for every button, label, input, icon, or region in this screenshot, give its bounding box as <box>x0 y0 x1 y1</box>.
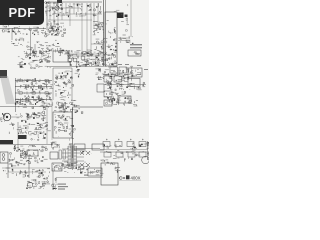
IC U16 <box>18 135 27 139</box>
label text <box>88 50 92 53</box>
wire <box>40 57 41 59</box>
wire <box>109 56 111 58</box>
wire <box>101 44 103 46</box>
wire <box>75 72 78 74</box>
wire <box>46 2 50 4</box>
wire <box>36 114 38 116</box>
wire <box>55 93 57 97</box>
capacitor C10 <box>49 50 51 52</box>
label text <box>54 6 57 9</box>
wire <box>54 129 56 131</box>
wire <box>119 76 123 78</box>
wire <box>110 32 112 34</box>
capacitor C62 <box>39 133 42 134</box>
wire <box>105 23 107 24</box>
transistor Q31 <box>81 56 85 60</box>
wire <box>45 119 47 121</box>
diode D30 <box>64 82 65 84</box>
svg-text:400X: 400X <box>131 175 141 180</box>
wire <box>32 61 34 62</box>
label text <box>52 47 54 50</box>
wire <box>81 54 85 56</box>
diode D52 <box>44 137 45 138</box>
wire <box>54 168 56 171</box>
diode D11 <box>101 46 102 48</box>
wire <box>106 82 108 85</box>
wire <box>38 181 40 183</box>
wire <box>22 119 26 121</box>
diode D3 <box>57 28 58 30</box>
wire <box>70 108 74 110</box>
wire <box>23 125 27 127</box>
node <box>72 169 73 170</box>
wire <box>8 132 10 134</box>
capacitor C47 <box>136 74 138 77</box>
node <box>37 42 38 43</box>
wire <box>39 126 42 128</box>
capacitor C43 <box>118 73 120 74</box>
wire <box>116 102 120 104</box>
wire <box>97 68 99 71</box>
label text <box>45 104 47 107</box>
wire <box>120 88 122 89</box>
wire <box>28 85 30 87</box>
wire <box>71 76 73 78</box>
transistor Q10 <box>99 12 101 14</box>
wire <box>107 85 110 87</box>
wire <box>131 75 132 77</box>
wire <box>37 170 41 172</box>
capacitor C84 <box>24 164 25 165</box>
wire <box>22 44 24 47</box>
wire <box>67 164 69 166</box>
wire <box>101 48 103 50</box>
wire <box>43 49 46 51</box>
capacitor C56 <box>33 117 35 119</box>
wire <box>59 49 62 51</box>
resistor R12 <box>121 14 123 15</box>
wire <box>108 32 110 34</box>
IC U4 <box>117 13 124 19</box>
diode D17 <box>126 30 128 31</box>
wire <box>78 63 80 65</box>
wire <box>72 99 75 101</box>
label text <box>38 33 40 36</box>
label text <box>69 94 72 97</box>
transistor Q1 <box>55 6 59 10</box>
wire <box>97 3 99 30</box>
wire <box>51 29 54 31</box>
wire <box>56 120 60 122</box>
wire <box>85 13 87 16</box>
wire <box>71 75 73 77</box>
wire <box>19 153 21 157</box>
resistor R30 <box>19 92 22 94</box>
resistor R22 <box>36 65 37 67</box>
wire <box>54 23 59 25</box>
node <box>102 26 103 27</box>
wire <box>72 137 74 139</box>
wire <box>112 63 114 66</box>
diode D66 <box>134 147 136 148</box>
capacitor C22 <box>110 48 112 51</box>
diode D7 <box>59 25 60 28</box>
wire <box>102 61 104 63</box>
wire <box>44 58 46 61</box>
wire <box>58 105 60 108</box>
node <box>69 55 72 58</box>
capacitor C81 <box>142 139 144 141</box>
transistor Q79 <box>28 181 30 183</box>
wire <box>58 54 60 57</box>
wire <box>131 100 133 103</box>
wire <box>100 76 102 78</box>
wire <box>129 103 133 105</box>
wire <box>132 153 134 155</box>
wire <box>23 84 28 86</box>
wire <box>28 100 30 103</box>
label text <box>113 157 117 160</box>
wire <box>39 99 43 101</box>
wire <box>20 133 22 134</box>
node <box>44 178 45 179</box>
inductor L82 <box>27 159 29 162</box>
wire <box>15 99 52 101</box>
label text <box>53 25 56 28</box>
wire <box>48 20 50 22</box>
label text <box>20 159 23 162</box>
inductor L89 <box>70 146 72 169</box>
node <box>37 55 40 58</box>
wire <box>52 188 54 190</box>
label text <box>128 101 132 104</box>
transistor Q57 <box>27 114 29 116</box>
inductor L124 <box>74 166 77 168</box>
wire <box>63 91 65 93</box>
inductor L118 <box>74 157 77 159</box>
wire <box>61 99 65 101</box>
wire <box>77 68 80 70</box>
diode D6 <box>51 34 52 36</box>
wire <box>101 26 103 29</box>
inductor L60 <box>110 98 111 99</box>
wire <box>143 86 146 88</box>
wire <box>108 75 110 77</box>
wire <box>93 171 95 173</box>
diode D70 <box>16 161 17 163</box>
wire <box>24 58 26 60</box>
wire <box>28 123 30 125</box>
wire <box>14 27 18 29</box>
inductor L36 <box>41 60 43 63</box>
wire <box>46 85 48 88</box>
label text <box>74 99 77 102</box>
wire <box>17 30 19 33</box>
wire <box>147 141 149 160</box>
wire <box>51 7 53 10</box>
wire <box>47 66 104 68</box>
capacitor C89 <box>39 173 41 174</box>
wire <box>27 126 29 129</box>
resistor R3 <box>58 2 59 3</box>
wire <box>102 47 104 49</box>
inductor L17 <box>46 51 47 53</box>
label text <box>107 161 109 164</box>
diode D41 <box>113 98 115 100</box>
wire <box>94 49 97 51</box>
resistor R15 <box>96 57 98 58</box>
capacitor C92 <box>44 182 45 185</box>
transistor Q75 <box>35 160 37 162</box>
wire <box>138 144 140 146</box>
wire <box>130 85 133 87</box>
IC U5 <box>125 15 128 18</box>
wire <box>126 151 128 153</box>
diode D13 <box>37 26 39 29</box>
resistor R64 <box>140 145 142 147</box>
label text <box>59 110 63 113</box>
node <box>1 121 2 122</box>
diode D36 <box>110 87 112 88</box>
wire <box>75 12 77 15</box>
resistor R7 <box>60 48 61 49</box>
diode D80 <box>62 164 64 166</box>
resistor R44 <box>110 83 111 85</box>
resistor R43 <box>122 78 124 80</box>
node <box>23 158 24 159</box>
transistor Q74 <box>24 156 26 158</box>
label text <box>57 26 59 29</box>
wire <box>26 130 28 131</box>
wire <box>116 169 118 172</box>
wire <box>98 27 100 29</box>
inductor L64 <box>44 108 46 110</box>
wire <box>61 168 63 170</box>
IC U2 <box>53 51 68 62</box>
wire <box>114 30 117 32</box>
node <box>104 54 105 55</box>
wire <box>54 188 57 190</box>
node <box>62 115 65 118</box>
label text <box>43 146 45 149</box>
wire <box>78 13 81 15</box>
wire <box>53 2 55 4</box>
label text <box>22 132 24 135</box>
wire <box>98 76 103 78</box>
wire <box>131 43 133 44</box>
node <box>103 90 106 93</box>
wire <box>136 87 138 90</box>
wire <box>85 64 89 66</box>
wire <box>66 165 70 167</box>
label text <box>77 53 79 56</box>
inductor L122 <box>74 163 77 165</box>
label text <box>49 87 53 90</box>
label text <box>46 34 49 37</box>
wire <box>64 122 68 124</box>
wire <box>111 78 113 81</box>
inductor L123 <box>74 164 77 166</box>
wire <box>59 93 61 95</box>
transistor Q39 <box>36 83 37 84</box>
wire <box>70 118 73 120</box>
diode D83 <box>80 151 84 155</box>
label text <box>58 188 65 189</box>
label text <box>98 67 101 70</box>
label text <box>47 5 51 8</box>
wire <box>49 15 51 17</box>
resistor R45 <box>125 97 127 99</box>
wire <box>102 37 105 39</box>
inductor L127 <box>131 158 132 160</box>
diode D51 <box>36 128 37 129</box>
wire <box>75 102 77 104</box>
wire <box>115 169 119 171</box>
inductor L61 <box>26 101 27 103</box>
transistor Q34 <box>29 63 30 64</box>
diode D1 <box>52 7 55 8</box>
wire <box>76 54 78 57</box>
capacitor C57 <box>20 130 22 132</box>
wire <box>46 51 49 53</box>
wire <box>26 116 28 118</box>
transistor Q43 <box>69 81 71 83</box>
wire <box>60 15 62 17</box>
transistor Q29 <box>68 58 72 62</box>
label text <box>144 68 148 71</box>
label text <box>117 169 121 172</box>
label text <box>23 176 25 179</box>
diode D89 <box>86 163 90 167</box>
node <box>84 53 85 54</box>
wire <box>73 66 75 68</box>
inductor L71 <box>29 124 30 125</box>
label text <box>16 162 19 165</box>
wire <box>82 64 87 66</box>
wire <box>21 127 25 129</box>
wire <box>7 170 9 172</box>
wire <box>30 114 32 116</box>
resistor R67 <box>39 170 40 171</box>
label text <box>132 72 134 75</box>
label text <box>35 29 38 32</box>
node <box>25 151 26 152</box>
wire <box>48 96 50 100</box>
transistor Q80 <box>40 187 41 188</box>
wire <box>0 144 52 146</box>
wire <box>46 2 48 30</box>
transistor Q6 <box>71 7 73 9</box>
wire <box>52 44 54 46</box>
wire <box>60 53 62 56</box>
wire <box>87 61 89 63</box>
capacitor C17 <box>116 43 117 45</box>
resistor R9 <box>29 29 31 31</box>
label text <box>104 65 106 68</box>
wire <box>140 72 142 74</box>
node <box>14 147 15 148</box>
diode D49 <box>34 112 35 114</box>
diode D58 <box>67 106 70 108</box>
node <box>105 164 106 165</box>
label text <box>27 46 31 49</box>
diode D34 <box>131 65 133 68</box>
wire <box>46 105 50 107</box>
wire <box>57 164 60 166</box>
IC U23 <box>103 142 110 147</box>
node <box>116 94 117 95</box>
wire <box>117 157 119 159</box>
wire <box>27 151 29 153</box>
label text <box>76 104 80 107</box>
transistor Q17 <box>101 41 103 43</box>
wire <box>35 181 38 183</box>
wire <box>115 39 117 41</box>
wire <box>74 148 100 150</box>
label text <box>126 68 129 71</box>
inductor L126 <box>80 172 82 173</box>
diode D88 <box>86 163 90 167</box>
label text <box>104 37 108 40</box>
inductor L47 <box>61 76 62 78</box>
wire <box>59 106 61 109</box>
wire <box>119 180 141 182</box>
wire <box>90 59 92 61</box>
transistor Q15 <box>98 24 99 25</box>
capacitor C44 <box>123 70 124 72</box>
capacitor C60 <box>39 125 41 126</box>
wire <box>86 60 88 62</box>
wire <box>25 120 27 123</box>
capacitor C30 <box>85 64 86 66</box>
label text <box>39 51 43 54</box>
node <box>96 171 99 174</box>
resistor R13 <box>69 63 72 65</box>
wire <box>57 75 59 77</box>
diode D59 <box>73 104 75 105</box>
resistor R65 <box>35 157 36 159</box>
label text <box>29 144 33 147</box>
node <box>147 153 148 154</box>
label text <box>96 38 100 41</box>
transistor Q25 <box>79 65 80 66</box>
transistor Q23 <box>110 49 111 50</box>
resistor R24 <box>39 62 41 63</box>
label text <box>72 166 74 169</box>
label text <box>77 49 81 52</box>
wire <box>58 107 61 109</box>
inductor L2 <box>56 8 57 11</box>
wire <box>69 57 71 59</box>
wire <box>45 33 48 35</box>
wire <box>69 54 73 56</box>
transistor Q5 <box>93 9 95 11</box>
wire <box>21 103 23 105</box>
wire <box>4 114 6 116</box>
node <box>138 87 139 88</box>
node <box>90 54 91 55</box>
transistor Q4 <box>48 1 50 3</box>
wire <box>69 133 71 134</box>
capacitor C67 <box>66 108 67 109</box>
diode D43 <box>116 101 117 103</box>
wire <box>23 106 27 108</box>
wire <box>27 185 29 187</box>
transistor Q36 <box>25 87 27 89</box>
wire <box>110 89 113 91</box>
resistor R59 <box>66 126 68 128</box>
wire <box>38 115 41 117</box>
